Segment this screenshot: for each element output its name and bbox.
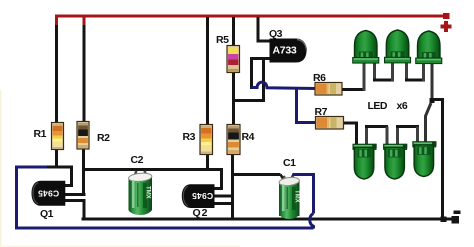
wire C1 left lead [233, 173, 281, 176]
resistor R2 [77, 122, 89, 150]
svg-text:TMX: TMX [294, 190, 300, 203]
wire LED1 to LED2 link [373, 62, 394, 81]
resistor R5 [227, 46, 240, 73]
wire LED6 right leg to return [426, 103, 432, 143]
wire R4 bottom vertical [231, 154, 234, 219]
wire R7 right lead to LED4 [344, 123, 357, 145]
label Q3 [269, 28, 283, 40]
label R4 [242, 131, 255, 143]
wire node A horizontal [45, 166, 73, 169]
LED D3 [416, 31, 442, 64]
wire Q3 collector to R4 node [234, 59, 264, 101]
LED D6 [413, 141, 437, 176]
svg-text:C1: C1 [283, 157, 296, 169]
LED D1 [353, 31, 379, 64]
label R5 [216, 34, 229, 46]
wire +V rail red [55, 16, 444, 27]
label LED x6 [368, 100, 408, 112]
wire R5 to R4 link [232, 72, 235, 126]
label R1 [34, 128, 47, 140]
capacitor C2 [128, 171, 152, 215]
svg-text:R6: R6 [313, 72, 326, 84]
svg-text:Q3: Q3 [269, 28, 283, 40]
transistor Q1 [32, 181, 66, 206]
wire LED4 to LED5 link [365, 127, 388, 146]
svg-text:R3: R3 [183, 131, 196, 143]
node minus terminal bar [454, 211, 461, 215]
LED D4 [353, 144, 377, 179]
label Q1 [40, 208, 54, 220]
node + plus symbol [441, 21, 452, 32]
wire Q1 emitter to bus [65, 201, 85, 219]
wire blue C1 right riser [290, 175, 314, 229]
wire C1 left diagonal [281, 175, 285, 182]
wire R2 bottom vertical [82, 149, 85, 196]
svg-text:C945: C945 [38, 189, 59, 199]
label R6 [313, 72, 326, 84]
wire blue branch to R7 [297, 89, 316, 123]
wire R1 bottom lead [55, 149, 58, 169]
svg-text:C945: C945 [192, 191, 213, 201]
node + terminal square [443, 13, 450, 19]
svg-text:R5: R5 [216, 34, 229, 46]
transistor Q2 [182, 184, 215, 208]
svg-text:TMX: TMX [145, 186, 151, 199]
wire LED1 left leg [363, 62, 366, 91]
wire R5 top lead [232, 17, 235, 46]
resistor R7 [316, 117, 344, 130]
label R7 [315, 106, 328, 118]
svg-text:R4: R4 [242, 131, 255, 143]
LED D2 [385, 30, 411, 63]
LED D5 [384, 144, 408, 179]
wire R1 top lead [55, 25, 58, 124]
wire bus to minus terminal [444, 217, 452, 220]
svg-text:R2: R2 [97, 132, 110, 144]
wire cathode return vertical [431, 100, 443, 220]
label R2 [97, 132, 110, 144]
wire Q1 collector [65, 166, 72, 186]
label Q2 [193, 207, 209, 219]
wire R3 top lead [206, 17, 209, 126]
label R3 [183, 131, 196, 143]
transistor Q3 [270, 39, 307, 63]
node bus junction dot [441, 217, 447, 223]
svg-text:A733: A733 [273, 45, 297, 57]
svg-text:LED: LED [368, 100, 388, 112]
wire Q2 emitter stub [214, 202, 234, 205]
svg-text:R7: R7 [315, 106, 328, 118]
wire Q2 base stub [214, 195, 235, 198]
wire cross coupling horizontal [83, 168, 222, 171]
wire R2 top lead [83, 25, 86, 123]
wire R6 right lead [342, 88, 366, 91]
wire LED5 to LED6 link [396, 127, 419, 146]
wire LED2 to LED3 link [405, 62, 425, 81]
svg-text:Q1: Q1 [40, 208, 54, 220]
resistor R6 [315, 83, 342, 96]
wire Q1 base stub [65, 193, 86, 196]
svg-text:R1: R1 [34, 128, 47, 140]
label C1 [283, 157, 296, 169]
node junction dot [430, 98, 435, 103]
wire blue net hump over Q3 collector [252, 82, 317, 88]
resistor R3 [200, 125, 213, 155]
wire blue loop Q1 collector to bottom [17, 167, 314, 228]
resistor R1 [52, 123, 64, 150]
wire LED3 right leg [431, 63, 434, 101]
node minus terminal square [452, 216, 460, 224]
wire R3 bottom lead [206, 154, 209, 171]
wire Q2 collector [214, 168, 222, 189]
svg-text:Q2: Q2 [193, 207, 209, 219]
capacitor C1 [279, 176, 300, 219]
wire Q3 base [252, 59, 270, 90]
wire ground bus bottom [82, 217, 454, 220]
svg-text:x6: x6 [397, 100, 408, 112]
svg-text:C2: C2 [131, 154, 144, 166]
label C2 [131, 154, 144, 166]
wire Q3 emitter to rail [258, 17, 270, 41]
resistor R4 [227, 125, 240, 155]
